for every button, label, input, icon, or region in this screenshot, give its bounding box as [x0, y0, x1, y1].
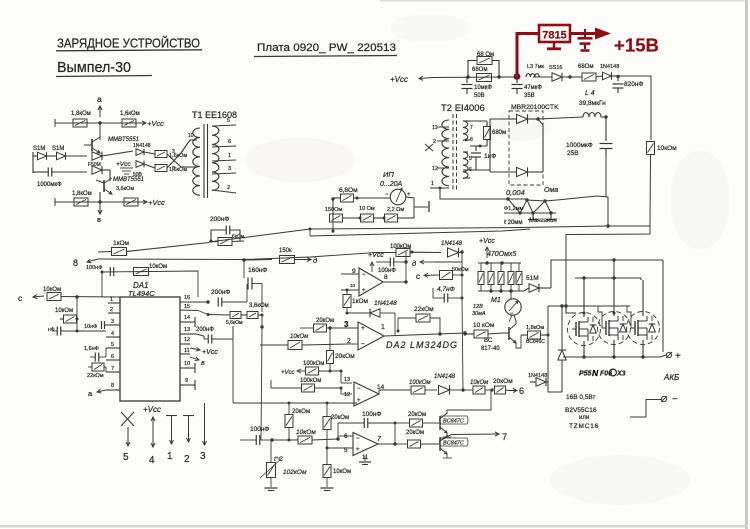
resistor 10kOhm out — [463, 380, 494, 394]
svg-text:М1: М1 — [491, 297, 501, 304]
resistor 20kOhm v — [327, 328, 356, 371]
capacitor 100nF da2b — [376, 258, 406, 275]
svg-text:1N4148: 1N4148 — [133, 143, 151, 149]
sensor right wires — [406, 197, 414, 218]
svg-text:+Vcc: +Vcc — [147, 119, 164, 128]
svg-text:50кОм: 50кОм — [452, 267, 469, 273]
pin3 cap label — [84, 321, 113, 330]
svg-text:6: 6 — [519, 386, 524, 396]
svg-text:22кОм: 22кОм — [87, 373, 104, 379]
regulator U3 7815 red box — [539, 25, 570, 42]
svg-text:25В: 25В — [567, 150, 579, 157]
DA1 pin8 node a — [88, 389, 106, 398]
bank top bus — [478, 261, 521, 264]
svg-text:14: 14 — [184, 315, 190, 321]
resistor 1.6kOhm bottom — [124, 198, 138, 206]
diode 1N4148 gate — [528, 373, 548, 386]
svg-text:50В: 50В — [474, 93, 485, 99]
svg-text:8: 8 — [470, 137, 473, 143]
svg-text:817-40: 817-40 — [481, 346, 500, 352]
svg-text:1: 1 — [167, 451, 173, 462]
svg-text:100кОм: 100кОм — [300, 378, 321, 384]
svg-text:F50М: F50М — [88, 162, 101, 168]
svg-text:10кОм: 10кОм — [470, 380, 488, 386]
svg-text:7: 7 — [470, 125, 473, 131]
svg-text:1кОм: 1кОм — [113, 240, 130, 247]
meter wires — [509, 291, 512, 322]
svg-text:X3: X3 — [616, 371, 626, 378]
svg-text:1,6нФ: 1,6нФ — [84, 346, 99, 352]
wire T1 pin9 — [181, 166, 197, 168]
DA1 pin7 — [106, 366, 120, 372]
svg-text:100кОм: 100кОм — [390, 244, 411, 250]
wire 8 row — [73, 258, 246, 268]
bottom arrow 3 — [203, 403, 207, 445]
resistor 150 Ohm — [325, 207, 360, 222]
DA1 top loop — [102, 271, 198, 297]
capacitor 10uF 50V — [462, 77, 493, 99]
scan border bottom — [0, 525, 748, 528]
T1 pin 5 lead — [212, 118, 236, 126]
meter M1 — [491, 297, 521, 317]
svg-text:13: 13 — [184, 327, 190, 333]
svg-text:12: 12 — [344, 392, 350, 398]
parallel 68Ohm pair — [466, 60, 500, 79]
svg-text:+Vcc: +Vcc — [479, 238, 495, 245]
red wire to 7815 input — [517, 34, 539, 76]
svg-text:15: 15 — [184, 304, 190, 310]
svg-text:+: + — [356, 447, 360, 453]
svg-text:10: 10 — [184, 361, 190, 367]
svg-text:1N4148: 1N4148 — [600, 64, 619, 70]
svg-text:7815: 7815 — [542, 30, 566, 42]
resistor 1.8kOhm top — [71, 111, 91, 127]
svg-text:20кОм: 20кОм — [331, 415, 349, 421]
diode 1N4148 row254 — [441, 241, 463, 257]
svg-text:13: 13 — [344, 377, 350, 383]
resistor 20kOhm c2 — [395, 430, 437, 448]
capacitor 1nF — [463, 146, 496, 170]
+Vcc row254 — [0, 0, 1, 1]
scan smudges — [245, 14, 730, 505]
svg-text:6,8Ом: 6,8Ом — [339, 187, 358, 194]
resistor 20kOhm out — [493, 378, 513, 394]
DA1 pin2 — [108, 307, 120, 313]
svg-text:11: 11 — [432, 125, 438, 131]
svg-text:ИП: ИП — [383, 170, 394, 179]
resistor 10kOhm b3 — [321, 448, 352, 491]
diode VD6 — [133, 161, 144, 178]
DA1 pin8 — [106, 383, 120, 390]
svg-text:MBR20100CTK: MBR20100CTK — [511, 104, 559, 111]
wire T1 pin10 — [181, 133, 197, 153]
DA1 pin16 — [180, 295, 210, 304]
wire top right corner — [618, 76, 651, 140]
capacitor 1nF c — [48, 319, 106, 336]
svg-text:6: 6 — [344, 433, 348, 440]
BC817 collector wire — [514, 315, 516, 324]
svg-text:BC846C: BC846C — [526, 339, 545, 345]
svg-text:10кОм: 10кОм — [296, 429, 316, 436]
svg-text:102кОм: 102кОм — [283, 469, 307, 476]
wire row1 to T1 — [102, 151, 133, 156]
svg-text:160нФ: 160нФ — [248, 267, 267, 274]
svg-text:12В: 12В — [473, 304, 483, 310]
MBR diode bottom — [490, 119, 543, 177]
svg-text:39,8мкГн: 39,8мкГн — [579, 100, 606, 107]
svg-text:10 Ом: 10 Ом — [359, 206, 375, 212]
T2 sec winding A — [463, 121, 468, 140]
svg-text:2: 2 — [433, 139, 436, 145]
bank resistors — [478, 263, 522, 291]
svg-text:1N4148: 1N4148 — [374, 300, 397, 307]
DA1 pin13 — [180, 327, 196, 334]
resistor 20kOhm c1 — [395, 412, 437, 427]
svg-text:200нФ: 200нФ — [211, 289, 230, 296]
wire d arrow — [412, 259, 462, 268]
diode VD5 1N4148 — [133, 143, 151, 155]
capacitor 100nF top — [86, 265, 114, 276]
svg-text:50В: 50В — [133, 172, 143, 178]
thermistor gnd — [265, 478, 278, 491]
node a label — [97, 94, 102, 117]
svg-text:1кОм: 1кОм — [352, 298, 369, 305]
bottom X mark — [121, 412, 134, 446]
svg-text:16: 16 — [184, 295, 190, 301]
svg-text:6кОм: 6кОм — [232, 234, 245, 240]
bank bottom bus — [478, 289, 524, 292]
resistor 20kOhm b1 — [285, 403, 310, 442]
AKB label — [663, 373, 679, 382]
resistor 68Ohm series — [578, 64, 596, 81]
svg-text:1N4148: 1N4148 — [434, 374, 456, 380]
svg-text:Вымпел-30: Вымпел-30 — [57, 59, 131, 76]
shunt zigzag — [508, 199, 551, 213]
svg-text:35В: 35В — [524, 93, 535, 99]
svg-text:10мкФ: 10мкФ — [474, 85, 492, 91]
resistor 1.6kOhm g1 — [155, 151, 187, 160]
svg-text:5: 5 — [111, 342, 114, 348]
+Vcc bank label — [479, 238, 495, 258]
svg-text:68 Ом: 68 Ом — [477, 52, 494, 58]
svg-text:1,8кОм: 1,8кОм — [526, 325, 544, 331]
svg-text:10 кОм: 10 кОм — [473, 322, 495, 329]
BC847 top collector — [447, 390, 491, 414]
svg-text:4,7нФ: 4,7нФ — [437, 286, 455, 293]
resistor 10kOhm base — [463, 322, 502, 338]
long wire W2 — [310, 229, 530, 236]
svg-text:SS16: SS16 — [549, 65, 562, 71]
resistor 20kOhm b2 — [323, 403, 349, 450]
junction b-rail — [98, 200, 101, 203]
T2 nc cross — [425, 144, 433, 151]
title line 2 — [56, 59, 152, 77]
svg-text:1000мкФ: 1000мкФ — [37, 182, 62, 188]
svg-text:c: c — [416, 272, 420, 281]
MOSFET VT1 P55NF06 — [568, 313, 601, 346]
resistor 1.6kOhm top — [120, 111, 140, 127]
T1 primary winding — [193, 128, 200, 195]
opamp DA2c out — [377, 436, 397, 446]
red filter capacitor — [578, 29, 593, 51]
svg-text:47мкФ: 47мкФ — [524, 85, 542, 91]
diode 1N4148 out — [434, 374, 465, 395]
svg-text:1: 1 — [431, 181, 434, 187]
wire pin12 — [340, 387, 353, 399]
wire 150k to d — [244, 248, 317, 265]
svg-text:T2 EI4006: T2 EI4006 — [441, 103, 485, 114]
resistor 68Ohm p2 — [472, 67, 492, 82]
transistor BC847C bottom — [437, 435, 468, 458]
svg-text:200нФ: 200нФ — [210, 216, 229, 223]
T1 pin 1 lead — [212, 153, 236, 161]
capacitor 1000uF — [37, 168, 62, 189]
wire y403 rail — [233, 402, 357, 405]
wire h260 — [551, 260, 663, 288]
wire h226 — [608, 225, 650, 227]
DA2 name label — [386, 340, 458, 350]
wire shunt right up — [557, 196, 608, 225]
svg-text:1,8кОм: 1,8кОм — [72, 191, 92, 197]
Q2 label — [113, 177, 144, 192]
svg-text:10кОм: 10кОм — [43, 287, 61, 293]
svg-text:5,6кОм: 5,6кОм — [226, 320, 243, 326]
+Vcc label bottom — [138, 198, 165, 207]
svg-text:−: − — [361, 341, 365, 348]
svg-text:1,8кОм: 1,8кОм — [71, 111, 91, 117]
bottom +Vcc — [143, 405, 161, 447]
resistor 1kOhm row8 — [98, 240, 209, 256]
svg-text:11: 11 — [184, 348, 190, 354]
junction a-rail — [98, 121, 101, 124]
T1 pin 6 lead — [212, 139, 236, 147]
current sensor label — [380, 170, 403, 188]
opamp DA2a body — [358, 322, 384, 350]
svg-text:1N4148: 1N4148 — [441, 241, 463, 247]
svg-text:10: 10 — [350, 283, 356, 288]
mid +Vcc label — [116, 161, 133, 174]
wire diode row 2 — [33, 171, 87, 173]
opamp DA2b out — [383, 252, 408, 284]
scan border right — [745, 0, 748, 529]
svg-text:a: a — [97, 94, 102, 104]
resistor 2.2 Ohm — [385, 207, 415, 222]
diode VD1 S1M — [33, 146, 47, 160]
opamp DA2d out — [377, 384, 411, 394]
resistor 680Ohm — [470, 121, 506, 148]
resistor 22kOhm pin7 — [87, 363, 106, 379]
svg-text:T1 EE1608: T1 EE1608 — [192, 110, 237, 120]
junction row8r — [410, 250, 464, 253]
zener VD 16V — [558, 304, 566, 392]
+Vcc da2b — [368, 252, 384, 272]
svg-text:10кОм: 10кОм — [55, 308, 73, 314]
svg-text:ℓ 20мм: ℓ 20мм — [504, 219, 523, 226]
sensor polarity — [385, 192, 411, 198]
T2 pin 12 — [432, 166, 449, 172]
arrow out7 — [440, 432, 507, 442]
svg-text:Ома: Ома — [544, 187, 558, 194]
svg-text:2: 2 — [227, 185, 230, 191]
svg-text:+Vcc: +Vcc — [143, 405, 161, 414]
svg-text:+Vcc: +Vcc — [281, 370, 295, 376]
resistor 100kOhm p13 — [271, 378, 341, 392]
capacitor 200nF pin13 — [196, 326, 233, 344]
svg-text:6: 6 — [111, 354, 114, 360]
svg-text:22кОм: 22кОм — [414, 306, 434, 313]
svg-text:в: в — [97, 215, 101, 224]
DA1 pin4 — [106, 331, 120, 337]
title line 1 — [56, 36, 202, 51]
opamp DA2b body — [359, 268, 383, 296]
svg-text:20кОм: 20кОм — [316, 318, 334, 324]
svg-text:Ф1,2мм: Ф1,2мм — [504, 206, 524, 212]
T2 pin 2 — [433, 139, 449, 145]
capacitor 200nF pin16 — [211, 284, 247, 307]
svg-text:+15В: +15В — [614, 35, 659, 56]
opamp DA2a pin3 — [328, 320, 358, 330]
T1 secondary winding — [212, 126, 219, 190]
svg-text:68Ом: 68Ом — [472, 67, 487, 73]
svg-text:+: + — [361, 325, 365, 332]
svg-text:68Ом: 68Ом — [578, 64, 593, 70]
svg-text:1N4148: 1N4148 — [528, 373, 547, 379]
inductor L3 label — [527, 64, 562, 71]
opamp DA2c pin6 — [338, 433, 353, 440]
svg-text:3,6кОм: 3,6кОм — [116, 186, 134, 192]
svg-text:1: 1 — [381, 324, 385, 331]
capacitor 820nF — [613, 76, 644, 93]
resistor 1.6kOhm g2 — [155, 165, 187, 174]
resistor 100kOhm vcc — [281, 361, 343, 376]
+Vcc feed arrow — [419, 76, 433, 80]
diode VD3 — [92, 152, 102, 160]
wire right col corner — [566, 225, 650, 306]
svg-text:5: 5 — [123, 452, 129, 463]
diode VD4 — [88, 162, 102, 174]
svg-text:10кОм: 10кОм — [149, 264, 167, 270]
svg-text:ЗАРЯДНОЕ УСТРОЙСТВО: ЗАРЯДНОЕ УСТРОЙСТВО — [57, 36, 200, 51]
top +Vcc rail — [55, 119, 143, 127]
MBR diode top — [509, 114, 538, 123]
resistor 20kOhm pin3 — [300, 318, 334, 332]
source bus — [563, 355, 660, 358]
svg-text:12: 12 — [184, 337, 190, 343]
red wire 7815 output — [570, 32, 594, 35]
svg-text:4: 4 — [149, 455, 155, 466]
gate bus — [548, 304, 630, 314]
svg-text:20кОм: 20кОм — [493, 378, 513, 385]
T1 pin 2 lead — [212, 185, 236, 193]
svg-text:нФ: нФ — [48, 327, 55, 333]
T1 core — [204, 124, 208, 198]
MBR input wires — [490, 119, 509, 172]
opamp DA2b pin9 — [341, 268, 359, 275]
capacitor 100nF fb — [338, 411, 397, 444]
resistor 10 Ohm — [359, 206, 386, 222]
svg-text:6: 6 — [228, 139, 231, 145]
svg-text:+: + — [362, 288, 366, 294]
resistor 10kOhm c2 — [55, 297, 79, 323]
wire drain feed — [662, 260, 664, 352]
bottom arrow 2 — [183, 416, 194, 443]
DA1 pin5 — [106, 342, 120, 348]
svg-text:100нФ: 100нФ — [86, 265, 102, 271]
vert262 down — [261, 327, 262, 440]
resistor 1kOhm da2b — [343, 289, 369, 313]
left rail vert233 — [232, 326, 234, 403]
svg-text:−: − — [357, 386, 361, 392]
bottom numbers — [123, 451, 206, 466]
junction L4 out — [604, 115, 607, 118]
svg-text:B2V55C16: B2V55C16 — [565, 407, 597, 414]
svg-text:или: или — [579, 415, 589, 421]
T2 primary winding — [442, 120, 449, 186]
sensor bottom tie — [332, 219, 335, 233]
svg-text:S1M: S1M — [52, 146, 64, 152]
DA1 pin15 — [180, 304, 208, 315]
svg-text:д: д — [412, 259, 416, 268]
diode 1N4148 da2b — [346, 300, 398, 335]
svg-text:10кОм: 10кОм — [657, 145, 677, 152]
ground under 7815 — [547, 42, 561, 49]
battery minus terminal — [630, 394, 678, 417]
svg-text:TZMC16: TZMC16 — [569, 423, 599, 430]
T2 sec A pins — [463, 121, 473, 143]
T2 core dashed — [453, 114, 457, 192]
junction shunt bus — [606, 224, 609, 227]
transistor BC847C top — [437, 413, 468, 437]
red junction dot — [514, 73, 521, 80]
svg-text:−: − — [362, 272, 366, 278]
svg-text:20кОм: 20кОм — [335, 353, 355, 360]
board label — [254, 42, 397, 57]
svg-text:1: 1 — [110, 297, 113, 303]
svg-text:10кОм: 10кОм — [333, 469, 351, 475]
inductor L3 — [526, 74, 539, 77]
DA1 pin1 — [108, 297, 120, 303]
drain stubs — [584, 278, 643, 317]
svg-text:20кОм: 20кОм — [292, 409, 310, 415]
svg-text:5: 5 — [227, 118, 230, 124]
svg-text:30мА: 30мА — [472, 311, 486, 317]
resistor 10kOhm btm — [272, 429, 340, 444]
svg-text:−: − — [356, 436, 360, 442]
resistor 1.8kOhm gate — [521, 325, 550, 345]
wire Q2 to b arrow — [98, 192, 102, 214]
resistor 100kOhm row254 — [390, 244, 411, 257]
shunt sense taps — [528, 213, 556, 220]
svg-text:N: N — [592, 368, 599, 378]
svg-text:−: − — [385, 192, 389, 198]
svg-text:9: 9 — [185, 378, 188, 384]
mosfet type label — [579, 368, 626, 378]
opamp DA2c pin11 gnd — [359, 455, 371, 465]
svg-text:+Vcc: +Vcc — [390, 75, 408, 84]
svg-text:1000мкФ: 1000мкФ — [566, 142, 593, 149]
T2 pin 1 — [430, 181, 449, 190]
capacitor 200nF mid — [210, 216, 241, 243]
resistor 6.8Ohm — [333, 187, 390, 202]
junction MBR out — [536, 117, 539, 120]
DA1 pin14 — [180, 315, 195, 327]
svg-text:1,6кОм: 1,6кОм — [120, 111, 140, 117]
wires to T1 cross — [144, 149, 181, 172]
DA1 pin11 — [180, 348, 205, 367]
svg-text:+Vcc: +Vcc — [116, 161, 131, 168]
svg-text:12: 12 — [432, 166, 438, 172]
svg-text:150Ом: 150Ом — [325, 207, 342, 213]
